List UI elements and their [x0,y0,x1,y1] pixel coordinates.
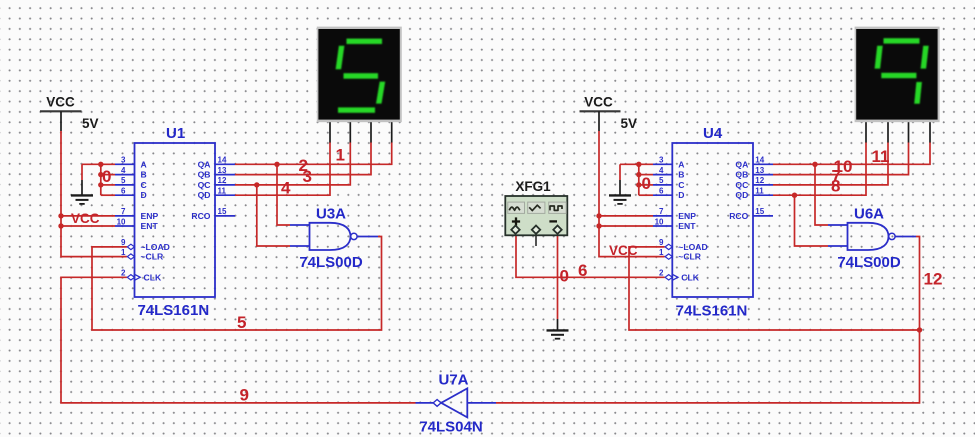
svg-text:D: D [141,190,147,200]
svg-text:RCO: RCO [191,211,210,221]
svg-text:6: 6 [121,187,126,196]
svg-text:5: 5 [237,313,246,332]
svg-text:ENT: ENT [141,221,159,231]
svg-text:6: 6 [659,187,664,196]
svg-text:VCC: VCC [609,243,638,258]
svg-text:5V: 5V [82,116,99,131]
svg-text:12: 12 [924,270,943,289]
svg-text:QD: QD [198,190,211,200]
svg-text:11: 11 [218,187,227,196]
svg-text:CLK: CLK [144,272,162,282]
svg-text:3: 3 [659,156,664,165]
svg-text:15: 15 [218,207,227,216]
svg-text:QB: QB [198,170,211,180]
svg-text:4: 4 [121,166,126,175]
svg-text:11: 11 [755,187,764,196]
svg-text:5: 5 [659,176,664,185]
svg-text:6: 6 [578,261,587,280]
svg-text:CLK: CLK [681,272,699,282]
svg-text:QC: QC [198,180,211,190]
svg-text:QA: QA [198,159,211,169]
svg-text:10: 10 [117,217,126,226]
svg-text:~CLR: ~CLR [678,252,701,262]
svg-text:U7A: U7A [438,372,468,389]
svg-text:QC: QC [735,180,748,190]
svg-text:D: D [678,190,684,200]
svg-text:ENT: ENT [678,221,696,231]
svg-text:VCC: VCC [46,95,75,110]
svg-text:A: A [141,159,147,169]
svg-text:~LOAD: ~LOAD [141,242,170,252]
svg-text:9: 9 [121,238,126,247]
svg-text:10: 10 [655,217,664,226]
svg-text:5: 5 [121,176,126,185]
svg-text:~LOAD: ~LOAD [678,242,707,252]
svg-text:9: 9 [240,386,249,405]
svg-text:74LS00D: 74LS00D [299,254,363,271]
svg-text:C: C [141,180,147,190]
svg-text:1: 1 [659,248,664,257]
svg-text:2: 2 [121,269,126,278]
svg-text:U6A: U6A [854,206,884,223]
svg-text:15: 15 [755,207,764,216]
svg-text:A: A [678,159,684,169]
svg-text:3: 3 [121,156,126,165]
svg-text:B: B [678,170,684,180]
svg-text:3: 3 [303,167,312,186]
svg-text:5V: 5V [621,116,638,131]
svg-text:13: 13 [755,166,764,175]
svg-text:B: B [141,170,147,180]
svg-text:1: 1 [336,146,345,165]
svg-text:2: 2 [659,269,664,278]
svg-text:RCO: RCO [729,211,748,221]
svg-text:7: 7 [659,207,664,216]
svg-text:9: 9 [659,238,664,247]
svg-text:4: 4 [659,166,664,175]
svg-text:11: 11 [872,147,890,166]
svg-text:8: 8 [831,177,840,196]
svg-text:~CLR: ~CLR [141,252,164,262]
svg-text:U1: U1 [166,125,185,142]
svg-text:74LS161N: 74LS161N [137,302,209,319]
svg-text:74LS00D: 74LS00D [837,254,901,271]
svg-text:74LS161N: 74LS161N [676,303,748,320]
svg-text:14: 14 [218,156,227,165]
svg-text:0: 0 [102,167,111,186]
svg-text:QA: QA [735,159,748,169]
svg-text:ENP: ENP [678,211,696,221]
svg-text:0: 0 [560,267,569,286]
svg-text:VCC: VCC [584,95,613,110]
svg-text:U3A: U3A [316,206,346,223]
svg-text:7: 7 [121,207,126,216]
svg-text:ENP: ENP [141,211,159,221]
svg-text:13: 13 [218,166,227,175]
svg-text:QD: QD [735,190,748,200]
svg-text:QB: QB [735,170,748,180]
svg-text:VCC: VCC [71,211,100,226]
svg-text:U4: U4 [703,125,723,142]
svg-text:12: 12 [218,176,227,185]
svg-text:XFG1: XFG1 [515,179,551,194]
svg-text:0: 0 [642,174,651,193]
svg-text:4: 4 [281,179,291,198]
svg-text:74LS04N: 74LS04N [419,419,482,436]
svg-text:1: 1 [121,248,126,257]
svg-text:12: 12 [755,176,764,185]
svg-text:C: C [678,180,684,190]
svg-text:14: 14 [755,156,764,165]
